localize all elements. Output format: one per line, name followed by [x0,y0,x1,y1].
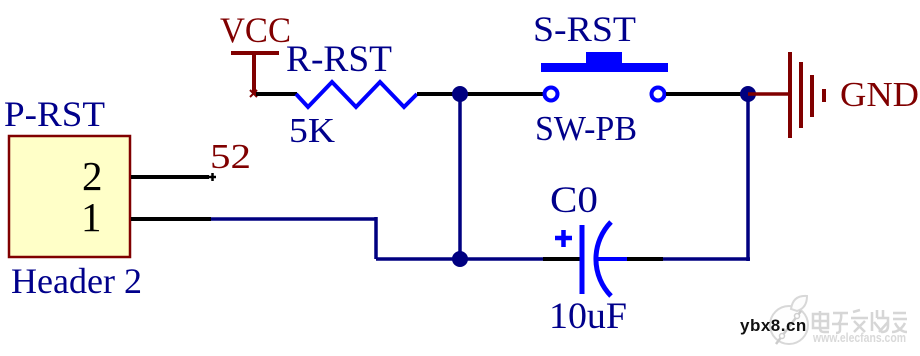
switch S-RST bar [541,63,668,72]
svg-text:www.elecfans.com: www.elecfans.com [812,330,906,345]
switch terminal right [652,88,665,101]
svg-text:52: 52 [210,137,251,176]
wire black to capacitor plate [543,257,581,261]
watermark logo circle [770,296,808,344]
connector P-RST body [9,136,130,257]
svg-text:R-RST: R-RST [286,39,392,80]
ground symbol [788,52,826,138]
capacitor C0 positive plate [580,225,585,294]
wire VCC to resistor [256,92,297,96]
svg-text:C0: C0 [550,180,598,221]
svg-text:5K: 5K [289,111,335,150]
wire pin 1 black [131,217,211,221]
wire bottom right navy [663,257,750,261]
capacitor lead stub [598,257,627,261]
svg-text:2: 2 [82,153,103,199]
svg-text:VCC: VCC [220,10,291,50]
node junction 3 [452,251,468,267]
switch terminal left [545,88,558,101]
VCC power symbol [231,51,279,95]
wire junction 1 down [458,94,462,259]
svg-text:SW-PB: SW-PB [535,109,637,148]
svg-text:10uF: 10uF [549,296,627,337]
wire bottom to capacitor [376,257,543,261]
resistor R-RST [296,82,417,107]
pin 2 wire end point [208,173,216,181]
capacitor plus sign [555,230,572,247]
svg-text:Header 2: Header 2 [11,261,142,301]
svg-text:1: 1 [81,194,102,240]
watermark chinese glyph blocks [813,310,907,333]
svg-text:ybx8.cn: ybx8.cn [740,316,807,335]
wire corner down [374,217,378,259]
svg-text:P-RST: P-RST [4,94,105,134]
node junction 1 [452,86,468,102]
wire junction 2 to ground [748,92,790,96]
wire pin 2 [131,175,209,179]
VCC stem tip cross [250,90,257,97]
wire capacitor to right black [627,257,663,261]
wire resistor to switch [417,92,543,96]
wire pin 1 navy horizontal [211,217,376,221]
svg-text:GND: GND [840,75,919,114]
wire junction 2 down [746,94,750,261]
capacitor C0 negative plate arc [596,222,611,296]
switch S-RST button [586,52,622,63]
svg-text:S-RST: S-RST [533,9,636,49]
node junction 2 [740,86,756,102]
wire switch to junction 2 [666,92,748,96]
